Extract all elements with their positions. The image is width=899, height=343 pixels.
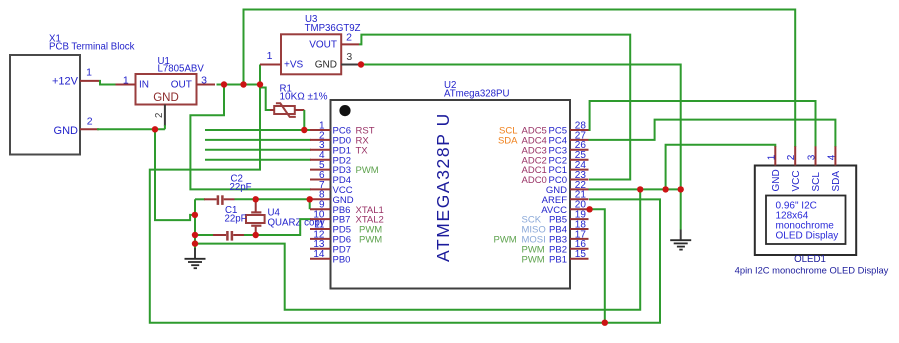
wire crystal bottom to pin 10: [256, 219, 311, 235]
svg-text:PWM: PWM: [522, 254, 545, 265]
U2 pin 22 GND: [546, 180, 589, 196]
U2 pin 23 PC0: [522, 170, 589, 186]
svg-text:ATmega328PU: ATmega328PU: [444, 89, 510, 100]
wire SDA to OLED: [589, 120, 836, 147]
junction +5V b: [240, 81, 246, 87]
svg-text:PB0: PB0: [333, 254, 351, 265]
svg-text:+VS: +VS: [284, 60, 304, 71]
svg-text:OLED Display: OLED Display: [776, 230, 839, 241]
svg-text:GND: GND: [771, 169, 782, 191]
junction R1-RST: [301, 127, 307, 133]
U2 pin 3 PD1: [310, 140, 368, 156]
junction C2-crystal: [253, 196, 259, 202]
U2 pin 10 PB7: [310, 210, 384, 226]
U2 pin 26 PC3: [522, 140, 589, 156]
wire TX row: [205, 149, 311, 151]
U1 pin 3 OUT: [197, 74, 216, 86]
U2 pin 24 PC1: [522, 160, 589, 176]
U2 pin 13 PD7: [310, 239, 351, 255]
wire RX row: [205, 139, 311, 141]
wire +5V riser to U3 +VS: [259, 65, 261, 85]
svg-text:GND: GND: [315, 60, 337, 71]
wire +5V OUT row: [217, 84, 261, 86]
U3 pin 3 GND: [341, 51, 359, 65]
wire +5V branch to AVCC: [589, 209, 605, 322]
svg-text:3: 3: [807, 154, 818, 160]
junction AVCC: [586, 206, 592, 212]
svg-text:PWM: PWM: [359, 235, 382, 246]
U2 pin 16 PB2: [522, 239, 589, 255]
svg-text:2: 2: [786, 154, 797, 160]
svg-text:2: 2: [87, 116, 93, 128]
svg-text:PWM: PWM: [356, 165, 379, 176]
regulator U1 L7805ABV: [136, 56, 205, 105]
svg-text:SDA: SDA: [831, 171, 842, 192]
svg-text:PWM: PWM: [494, 235, 517, 246]
svg-text:GND: GND: [54, 125, 79, 137]
U2 pin 20 AVCC: [541, 200, 588, 216]
resistor R1 10K thermistor: [270, 84, 328, 117]
OLED1 pin 2 VCC: [786, 146, 802, 191]
wire crystal top to pin 8: [256, 198, 310, 200]
connector X1 PCB Terminal Block: [10, 34, 135, 155]
U2 pin 8 GND: [310, 190, 354, 206]
U2 pin 18 PB4: [522, 219, 589, 235]
U2 pin 11 PD5: [310, 219, 382, 235]
wire PD2 row: [205, 159, 311, 161]
sensor U3 TMP36GT9Z: [281, 14, 361, 74]
svg-text:OUT: OUT: [171, 79, 192, 90]
svg-text:1: 1: [766, 154, 777, 160]
junction GND at U1: [152, 126, 158, 132]
display OLED1 body: [735, 166, 889, 276]
svg-text:4pin I2C monochrome OLED Displ: 4pin I2C monochrome OLED Display: [735, 264, 889, 275]
wire OLED GND: [666, 145, 776, 190]
junction U3 GND: [358, 61, 364, 67]
svg-text:IN: IN: [139, 79, 149, 90]
wire GND down to ground rail: [155, 129, 193, 220]
svg-text:GND: GND: [153, 92, 179, 104]
junction GND row a: [637, 186, 643, 192]
svg-text:ATMEGA328P U: ATMEGA328P U: [433, 112, 453, 262]
wire ground rail vertical: [194, 199, 196, 248]
svg-text:15: 15: [575, 249, 587, 260]
svg-text:TMP36GT9Z: TMP36GT9Z: [305, 23, 361, 34]
wire +5V branch to R1: [260, 85, 271, 111]
U2 pin 17 PB3: [494, 229, 589, 245]
U2 pin 15 PB1: [522, 249, 589, 265]
wire SCL to OLED: [589, 101, 816, 147]
U2 pin 7 VCC: [310, 180, 353, 196]
wire U3 GND to ground: [361, 65, 681, 230]
svg-text:4: 4: [826, 154, 837, 160]
junction +5V c: [257, 81, 263, 87]
svg-text:1: 1: [86, 67, 92, 79]
wire RST row: [205, 129, 311, 131]
U2 pin 27 PC4: [498, 130, 589, 146]
svg-text:1: 1: [267, 50, 273, 62]
U2 pin 25 PC2: [522, 150, 589, 166]
wire VOUT to ADC0 pin 23: [359, 35, 630, 180]
svg-text:2: 2: [154, 113, 165, 118]
U3 pin 2 VOUT: [341, 32, 359, 45]
svg-text:22pF: 22pF: [225, 214, 247, 225]
wire GND row pin 22: [589, 188, 681, 190]
mcu U2 ATmega328PU body: [331, 80, 571, 289]
OLED1 pin 4 SDA: [826, 146, 842, 191]
U3 pin 1 +VS: [260, 50, 281, 65]
junction GND row b: [662, 186, 668, 192]
svg-text:ADC0: ADC0: [522, 175, 547, 186]
U2 pin 21 AREF: [542, 190, 589, 206]
junction +5V a: [221, 81, 227, 87]
U1 pin 2 GND: [154, 105, 165, 127]
junction GND row c: [678, 186, 684, 192]
junction C1 left: [192, 232, 198, 238]
wire pin8 to pin9: [309, 199, 311, 209]
U1 pin 1 IN: [116, 74, 136, 86]
X1 pin 1: [80, 67, 99, 81]
ground symbol right: [670, 230, 691, 250]
junction rail-GND in: [192, 212, 198, 218]
U2 pin 14 PB0: [310, 249, 350, 265]
svg-text:3: 3: [201, 74, 207, 86]
wire GND return to pin 22: [195, 189, 640, 309]
U2 pin 5 PD3: [310, 160, 379, 176]
svg-text:PCB Terminal Block: PCB Terminal Block: [49, 42, 135, 53]
capacitor C1 22pF: [195, 205, 256, 241]
svg-text:2: 2: [346, 32, 352, 44]
X1 pin 2: [80, 116, 99, 130]
svg-text:TX: TX: [356, 145, 369, 156]
svg-text:SDA: SDA: [498, 136, 518, 147]
wire R1 to RST: [303, 110, 305, 130]
svg-text:14: 14: [313, 249, 325, 260]
crystal U4 QUARZ copy: [246, 200, 325, 235]
U2 pin 4 PD2: [310, 150, 351, 166]
capacitor C2 22pF: [195, 174, 256, 205]
wire GND X1 to U1 pin 2: [97, 125, 165, 129]
wire +5V bottom rail to AREF: [150, 85, 660, 323]
OLED1 pin 1 GND: [766, 146, 782, 191]
svg-text:3: 3: [346, 51, 352, 63]
junction pin8-pin9: [307, 196, 313, 202]
U2 pin 2 PD0: [310, 130, 369, 146]
svg-text:+12V: +12V: [52, 76, 79, 88]
U2 pin 9 PB6: [310, 200, 384, 216]
OLED1 pin 3 SCL: [807, 146, 823, 191]
U2 pin 19 PB5: [522, 210, 589, 226]
svg-text:L7805ABV: L7805ABV: [158, 63, 205, 74]
U2 pin 1 PC6: [310, 120, 375, 136]
wire +12V X1 to U1 IN: [99, 81, 116, 85]
svg-text:PB1: PB1: [549, 254, 567, 265]
junction +5V bottom: [602, 320, 608, 326]
U2 pin 6 PD4: [310, 170, 351, 186]
svg-text:VOUT: VOUT: [309, 39, 337, 50]
U2 pin 28 PC5: [499, 120, 588, 136]
U2 pin 12 PD6: [310, 229, 382, 245]
ground symbol left: [185, 244, 206, 269]
wire +5V top rail to OLED VCC: [244, 10, 796, 148]
svg-text:VCC: VCC: [791, 170, 802, 191]
junction C1-crystal: [253, 232, 259, 238]
svg-text:1: 1: [123, 74, 129, 86]
svg-text:22pF: 22pF: [230, 182, 252, 193]
svg-text:SCL: SCL: [811, 172, 822, 192]
wire +5V to VCC pin 7: [190, 85, 311, 190]
svg-text:10KΩ ±1%: 10KΩ ±1%: [280, 92, 328, 103]
junction ground rail: [192, 240, 198, 246]
